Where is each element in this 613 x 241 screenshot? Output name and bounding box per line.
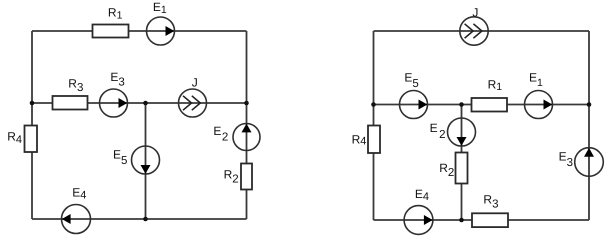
node left-row2 (circuit 1) (30, 101, 35, 106)
source E3 (left circuit) (100, 70, 128, 117)
node left-row2 (circuit 2) (371, 102, 376, 107)
wire right (circuit 2) (588, 31, 590, 220)
node center-bottom (circuit 2) (459, 218, 464, 223)
svg-text:J: J (472, 5, 478, 19)
resistor R2 (right circuit) (439, 153, 467, 184)
resistor R3 (left circuit) (53, 77, 88, 110)
resistor R1 (left circuit) (93, 6, 129, 38)
source E1 (left circuit) (147, 0, 175, 45)
wire middle row (circuit 2) (374, 104, 590, 106)
wire right (circuit 1) (246, 31, 248, 219)
source E3 (right circuit) (559, 148, 604, 177)
wire bottom (circuit 2) (374, 219, 590, 221)
wire top (circuit 2) (374, 30, 590, 32)
resistor R3 (right circuit) (472, 193, 508, 228)
resistor R4 (left circuit) (7, 126, 37, 153)
node right-row2 (circuit 1) (244, 101, 249, 106)
wire middle row (circuit 1) (32, 102, 247, 104)
resistor R4 (right circuit) (352, 126, 380, 154)
source E4 (right circuit) (404, 187, 433, 235)
wire center vertical (circuit 1) (145, 103, 147, 219)
wire left (circuit 1) (31, 31, 33, 219)
node right-row2 (circuit 2) (587, 102, 592, 107)
source E1 (right circuit) (525, 71, 553, 119)
current source J (left circuit) (179, 76, 207, 117)
source E2 (left circuit) (213, 124, 260, 151)
wire top (circuit 1) (32, 30, 247, 32)
wire center vertical (circuit 2) (461, 105, 463, 221)
current source J (right circuit) (460, 5, 488, 45)
source E5 (right circuit) (400, 71, 428, 119)
resistor R2 (left circuit) (224, 164, 252, 190)
resistor R1 (right circuit) (472, 77, 508, 111)
wire bottom (circuit 1) (32, 218, 247, 220)
node center-row2 (circuit 2) (459, 102, 464, 107)
source E4 (left circuit) (62, 185, 91, 233)
svg-text:J: J (192, 76, 198, 90)
svg-text:R4: R4 (352, 132, 367, 147)
source E2 (right circuit) (430, 118, 476, 146)
node center-row2 (circuit 1) (143, 101, 148, 106)
node center-bottom (circuit 1) (143, 217, 148, 222)
wire left (circuit 2) (373, 31, 375, 220)
source E5 (left circuit) (113, 146, 160, 174)
